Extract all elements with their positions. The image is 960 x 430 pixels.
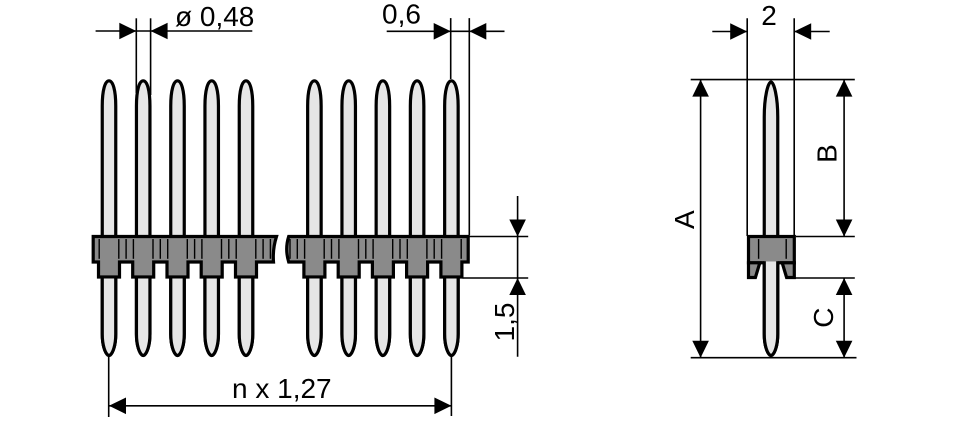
svg-text:A: A [669, 210, 700, 229]
pin 2 (front view) [136, 81, 150, 356]
pin 9 lower shank below body [410, 279, 424, 356]
pin lower shank redrawn through body notch (side view) [764, 261, 778, 355]
pin 6 lower shank below body [308, 279, 322, 356]
insulator body, right segment (bar with tabs) [287, 237, 469, 278]
dimension "1,5": extension line at body top edge [469, 236, 528, 238]
dimension "A": dimension line and arrows [700, 80, 702, 358]
body right foot (side view) [782, 263, 794, 278]
dimension "2": extension lines at body edges (side view) [746, 18, 748, 236]
pin 3 lower shank below body [171, 279, 185, 356]
pin 7 lower shank below body [342, 279, 356, 356]
dimension "C": dimension line and arrows [843, 278, 845, 358]
dimension "0,6": extension line at body right edge [468, 18, 470, 235]
dimension "1,5": dimension line and arrows [517, 196, 519, 357]
extension line at foot bottom for dimension C [793, 277, 855, 279]
pin 8 lower shank below body [376, 279, 390, 356]
extension line at pin top (side view) [691, 79, 855, 81]
pin 6 (front view) [308, 81, 322, 356]
dimension "&#248; 0,48": extension lines at pin 2 edges [135, 18, 137, 93]
dimension "n x 1,27": extension line below pin 10 [450, 357, 452, 416]
svg-text:1,5: 1,5 [489, 303, 520, 342]
insulator body block (side view) [749, 237, 795, 263]
svg-text:C: C [808, 307, 839, 327]
insulator body, left segment (bar with tabs) [93, 237, 276, 278]
extension line at body top for dimension B [796, 236, 855, 238]
body hatch marks, right segment [290, 239, 461, 259]
pin 9 (front view) [410, 81, 424, 356]
pin (side view) [764, 82, 778, 356]
pin 1 (front view) [102, 81, 116, 356]
pin 7 (front view) [342, 81, 356, 356]
dimension "n x 1,27": dimension line and arrows [109, 405, 451, 407]
dimension "0,6": extension line at last pin centre [450, 18, 452, 79]
dimension "2": dimension line and arrows [712, 31, 746, 33]
svg-text:0,6: 0,6 [382, 0, 421, 30]
svg-text:n x 1,27: n x 1,27 [232, 373, 332, 404]
svg-text:ø 0,48: ø 0,48 [175, 1, 254, 32]
pin 4 lower shank below body [205, 279, 219, 356]
dimension "0,6": dimension line and arrows [387, 30, 505, 32]
extension line at pin tip bottom (side view) [691, 357, 857, 359]
pin 10 lower shank below body [445, 279, 459, 356]
body hatch marks, left segment [99, 239, 270, 259]
pin 1 lower shank below body [102, 279, 116, 356]
pin 4 (front view) [205, 81, 219, 356]
pin 2 lower shank below body [136, 279, 150, 356]
svg-text:B: B [812, 144, 843, 163]
dimension "n x 1,27": extension line below pin 1 [108, 357, 110, 417]
pin 8 (front view) [376, 81, 390, 356]
pin 5 lower shank below body [239, 279, 253, 356]
pin 10 (front view) [445, 81, 459, 356]
pin 5 (front view) [239, 81, 253, 356]
body hole hatch marks (side view) [759, 239, 787, 259]
pin 3 (front view) [171, 81, 185, 356]
dimension "1,5": extension line at tab bottom edge [463, 277, 529, 279]
dimension "B": dimension line and arrows [843, 80, 845, 237]
svg-text:2: 2 [761, 0, 777, 31]
body left foot (side view) [749, 263, 760, 278]
dimension "&#248; 0,48": dimension line and arrows [96, 30, 253, 32]
